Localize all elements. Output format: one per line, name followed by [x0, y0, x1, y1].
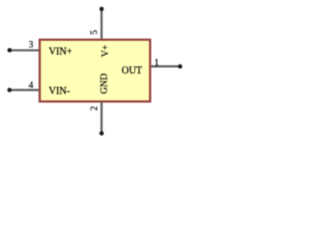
svg-text:OUT: OUT: [122, 66, 143, 77]
svg-text:1: 1: [154, 59, 159, 69]
svg-text:3: 3: [29, 40, 34, 50]
svg-text:5: 5: [89, 30, 99, 35]
node dot pin 5: [99, 7, 103, 11]
wire pin 3 (VIN+): [10, 49, 39, 51]
svg-text:VIN+: VIN+: [49, 46, 73, 57]
node dot pin 4: [7, 88, 11, 92]
node dot pin 2: [99, 131, 103, 135]
wire pin 1 (OUT): [151, 65, 180, 67]
wire pin 4 (VIN-): [10, 89, 39, 91]
svg-text:GND: GND: [100, 73, 110, 94]
svg-text:2: 2: [89, 106, 99, 111]
wire pin 2 (GND): [100, 102, 102, 133]
svg-text:4: 4: [29, 80, 34, 90]
wire pin 5 (V+): [100, 9, 102, 39]
node dot pin 3: [7, 48, 11, 52]
svg-text:VIN-: VIN-: [49, 86, 70, 97]
node dot pin 1: [178, 64, 182, 68]
component body U1 (yellow box): [40, 40, 150, 102]
svg-text:V+: V+: [101, 45, 111, 57]
